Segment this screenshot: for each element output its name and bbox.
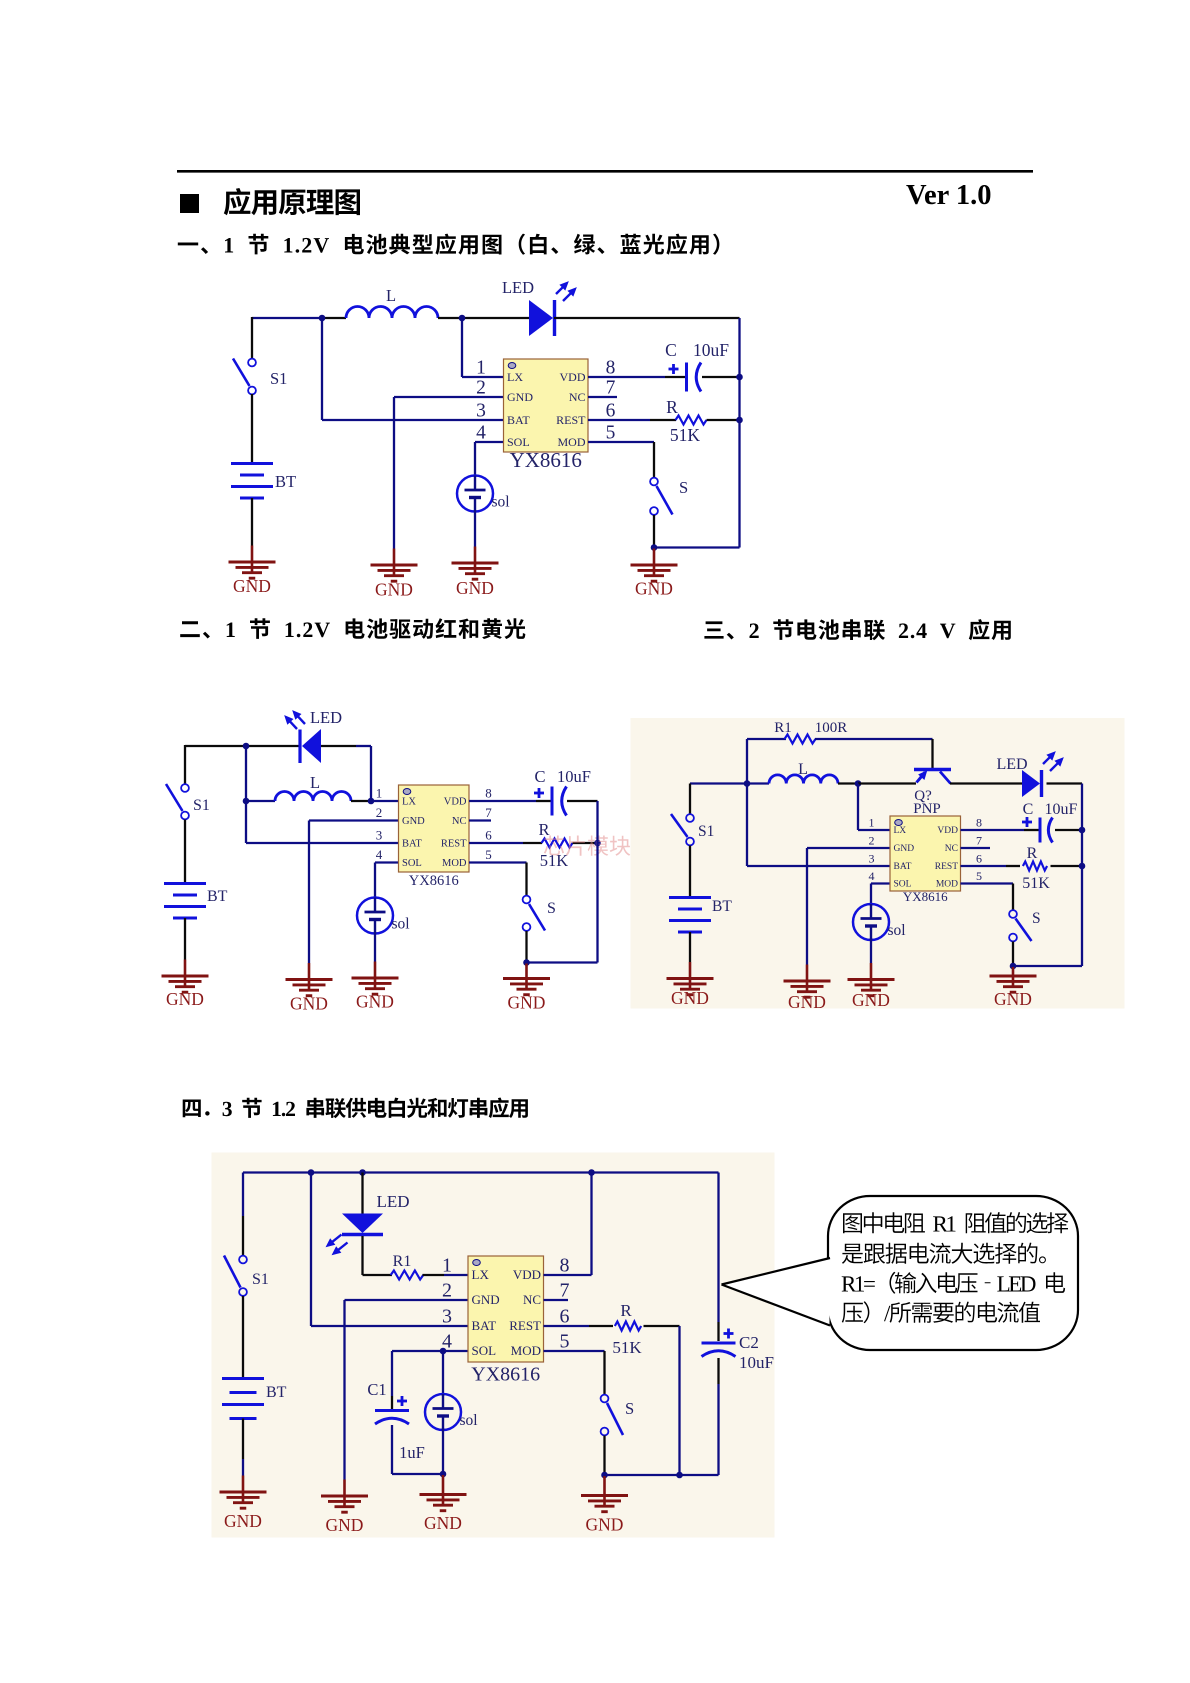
- svg-text:LX: LX: [894, 826, 907, 836]
- switch S1: [166, 784, 189, 819]
- svg-text:10uF: 10uF: [739, 1353, 774, 1372]
- wire S1 top: [184, 745, 186, 784]
- ground: [581, 1476, 628, 1535]
- wire SOL vertical: [870, 884, 872, 907]
- ground: [503, 964, 550, 1013]
- op-amp / IC U4 YX8616: [442, 1255, 570, 1386]
- wire pin6 REST: [588, 419, 650, 421]
- solar cell sol: [357, 898, 410, 934]
- svg-text:5: 5: [976, 869, 982, 883]
- wire inductor to node: [438, 317, 462, 319]
- LED D3: [1022, 752, 1063, 797]
- wire LED to corner: [321, 745, 356, 747]
- wire battery to ground: [689, 932, 691, 962]
- svg-text:VDD: VDD: [444, 796, 467, 807]
- svg-text:S1: S1: [252, 1271, 269, 1288]
- wire bottom right: [654, 546, 740, 548]
- node junction: [440, 1471, 447, 1478]
- svg-text:BT: BT: [207, 888, 228, 905]
- wire pin2 GND: [309, 819, 399, 821]
- wire pin2 vertical: [343, 1300, 345, 1480]
- node junction cap-rail: [736, 374, 743, 381]
- svg-text:sol: sol: [492, 494, 510, 511]
- wire stub: [242, 1459, 244, 1476]
- wire pin4 SOL: [375, 861, 399, 863]
- svg-text:YX8616: YX8616: [409, 873, 459, 889]
- wire R1 to chip: [423, 1274, 445, 1276]
- wire MOD vertical: [1012, 884, 1014, 911]
- node junction cap-rail: [1079, 827, 1086, 834]
- wire node to LED: [462, 317, 530, 319]
- wire pin2 vertical to ground: [393, 397, 395, 549]
- svg-text:REST: REST: [509, 1318, 541, 1333]
- wire resistor to rail: [573, 842, 598, 844]
- wire pin1 LX: [371, 800, 399, 802]
- svg-text:SOL: SOL: [507, 435, 530, 449]
- svg-text:GND: GND: [894, 844, 915, 854]
- resistor R1 100R: [785, 735, 816, 744]
- watermark: [544, 836, 651, 856]
- wire S1 to battery: [184, 820, 186, 883]
- wire battery to ground: [242, 1419, 244, 1460]
- LED D2: [285, 711, 321, 763]
- wire LX vertical: [461, 318, 463, 377]
- background panel: [212, 1153, 775, 1538]
- wire pin1 LX: [462, 376, 504, 378]
- svg-text:2: 2: [376, 805, 383, 820]
- wire pin2 vertical to ground: [308, 821, 310, 964]
- svg-text:REST: REST: [935, 862, 958, 872]
- node junction bottom: [523, 959, 530, 966]
- svg-text:GND: GND: [166, 989, 204, 1009]
- wire cap to rail: [567, 800, 598, 802]
- svg-text:R: R: [538, 820, 549, 839]
- callout tail: [722, 1259, 830, 1325]
- svg-text:GND: GND: [852, 990, 890, 1010]
- svg-text:GND: GND: [671, 988, 709, 1008]
- svg-text:7: 7: [606, 378, 616, 399]
- right rail: [738, 318, 740, 548]
- svg-text:GND: GND: [788, 992, 826, 1012]
- svg-text:10uF: 10uF: [557, 767, 591, 786]
- wire pin2 GND: [394, 396, 504, 398]
- svg-text:VDD: VDD: [937, 826, 958, 836]
- svg-text:S: S: [679, 478, 688, 497]
- right rail: [1081, 784, 1083, 967]
- capacitor C 10uF: [534, 787, 567, 816]
- svg-text:MOD: MOD: [511, 1343, 541, 1358]
- ground: [990, 967, 1037, 1009]
- node junction: [676, 1472, 683, 1479]
- ground: [229, 546, 276, 597]
- wire resistor right: [644, 1325, 680, 1327]
- wire top rail: [185, 745, 301, 747]
- svg-text:sol: sol: [392, 916, 410, 933]
- wire pin8 VDD: [961, 829, 1025, 831]
- wire main left: [690, 782, 769, 784]
- wire pin3 BAT vertical: [321, 318, 323, 420]
- wire corner down: [370, 746, 372, 801]
- wire pin1 LX: [858, 829, 891, 831]
- battery BT: [231, 464, 273, 499]
- node junction bottom: [1010, 963, 1017, 970]
- wire pin6 to resistor: [650, 419, 676, 421]
- wire MOD vertical: [603, 1351, 605, 1395]
- wire VDD vertical: [590, 1173, 592, 1276]
- svg-text:R1: R1: [774, 720, 792, 736]
- wire S1 to battery: [242, 1296, 244, 1377]
- svg-text:2: 2: [869, 834, 875, 848]
- svg-text:6: 6: [485, 828, 492, 843]
- transistor Q? PNP: [914, 770, 951, 784]
- svg-text:NC: NC: [945, 844, 958, 854]
- svg-text:SOL: SOL: [472, 1343, 497, 1358]
- svg-text:BAT: BAT: [472, 1318, 497, 1333]
- section 4 title: [183, 1098, 528, 1119]
- svg-text:S: S: [1032, 910, 1041, 927]
- svg-text:GND: GND: [375, 580, 413, 600]
- op-amp / IC U2 YX8616: [376, 785, 493, 889]
- ground: [162, 960, 209, 1010]
- svg-text:GND: GND: [472, 1292, 500, 1307]
- svg-text:S1: S1: [193, 797, 210, 814]
- svg-text:10uF: 10uF: [693, 340, 729, 360]
- node junction bottom: [651, 544, 658, 551]
- op-amp / IC U3 YX8616: [869, 816, 983, 905]
- svg-text:LED: LED: [996, 756, 1027, 773]
- capacitor C 10uF: [669, 363, 702, 392]
- section 2 title: [180, 618, 525, 639]
- battery BT: [222, 1379, 264, 1419]
- svg-text:GND: GND: [456, 578, 494, 598]
- resistor R 51K: [676, 416, 707, 425]
- wire pin7 NC stub: [961, 847, 991, 849]
- resistor R1: [391, 1271, 424, 1280]
- svg-text:C: C: [534, 767, 545, 786]
- battery BT: [669, 898, 711, 933]
- node junction bottom: [601, 1472, 608, 1479]
- callout text: [843, 1212, 1068, 1233]
- svg-text:GND: GND: [635, 579, 673, 599]
- svg-text:6: 6: [976, 852, 982, 866]
- wire left rail down to S1: [251, 317, 253, 359]
- svg-text:REST: REST: [441, 838, 467, 849]
- wire switch to bottom node: [525, 931, 527, 963]
- switch S1: [671, 814, 694, 845]
- wire pin5 MOD: [469, 861, 527, 863]
- wire SOL vertical: [474, 442, 476, 477]
- wire MOD vertical to switch: [653, 442, 655, 478]
- ground: [784, 965, 831, 1013]
- svg-text:GND: GND: [424, 1513, 462, 1533]
- svg-text:S: S: [625, 1399, 634, 1418]
- wire pin7 NC stub: [469, 819, 491, 821]
- wire inductor to node: [351, 800, 371, 802]
- switch S: [650, 478, 672, 515]
- svg-text:1: 1: [869, 816, 875, 830]
- switch S: [523, 896, 545, 931]
- wire switch to bottom: [603, 1436, 605, 1476]
- LED D1: [529, 282, 576, 336]
- wire sol to ground: [870, 938, 872, 963]
- ground: [352, 962, 399, 1012]
- svg-text:8: 8: [560, 1255, 570, 1277]
- ground: [220, 1476, 267, 1532]
- wire C1 vertical bottom: [391, 1425, 393, 1474]
- svg-text:5: 5: [606, 423, 616, 444]
- svg-text:L: L: [798, 761, 808, 778]
- op-amp / IC U1 YX8616: [476, 358, 616, 473]
- wire pin1 vertical: [857, 784, 859, 831]
- wire S1 to battery: [689, 846, 691, 897]
- svg-text:BT: BT: [266, 1384, 287, 1401]
- svg-text:4: 4: [476, 423, 486, 444]
- svg-text:BT: BT: [275, 472, 296, 491]
- svg-text:3: 3: [442, 1306, 452, 1328]
- wire pin4 SOL: [392, 1350, 469, 1352]
- wire pin2 vertical: [806, 848, 808, 965]
- wire C1 vertical top: [391, 1351, 393, 1396]
- svg-text:8: 8: [606, 358, 616, 379]
- wire pin3 BAT: [747, 865, 891, 867]
- svg-text:3: 3: [869, 852, 875, 866]
- svg-text:C: C: [665, 340, 677, 360]
- right rail bottom segment: [717, 1358, 719, 1384]
- wire pin2 GND: [345, 1299, 469, 1301]
- wire corner to R1: [363, 1274, 393, 1276]
- wire battery to ground: [251, 498, 253, 546]
- svg-text:C: C: [1023, 801, 1034, 818]
- svg-text:VDD: VDD: [560, 370, 586, 384]
- ground: [420, 1475, 467, 1533]
- wire bottom rail: [605, 1474, 719, 1476]
- wire top rail left: [252, 317, 322, 319]
- svg-text:8: 8: [485, 786, 492, 801]
- svg-text:MOD: MOD: [442, 858, 467, 869]
- wire pin8 VDD: [544, 1274, 592, 1276]
- wire top rail: [243, 1171, 719, 1173]
- svg-text:YX8616: YX8616: [510, 448, 582, 472]
- svg-text:51K: 51K: [612, 1338, 642, 1357]
- svg-text:GND: GND: [290, 994, 328, 1014]
- svg-text:LED: LED: [502, 278, 534, 297]
- wire pin4 SOL: [475, 441, 504, 443]
- wire sol to node: [442, 1428, 444, 1474]
- svg-text:MOD: MOD: [557, 435, 585, 449]
- wire pin6 to resistor: [523, 842, 542, 844]
- svg-text:S: S: [547, 900, 556, 917]
- switch S1: [233, 359, 256, 395]
- node junction top-left: [319, 315, 326, 322]
- wire LED to corner: [1047, 782, 1083, 784]
- svg-text:NC: NC: [452, 816, 467, 827]
- svg-text:7: 7: [976, 834, 982, 848]
- svg-text:sol: sol: [888, 922, 906, 939]
- node junction inductor-left: [243, 798, 250, 805]
- section 1 title: [178, 234, 720, 255]
- svg-text:GND: GND: [233, 576, 271, 596]
- svg-text:BAT: BAT: [894, 862, 912, 872]
- wire MOD vertical: [525, 863, 527, 897]
- wire pin5 MOD: [961, 882, 1014, 884]
- wire resistor to rail: [707, 419, 740, 421]
- wire pin8 VDD: [469, 800, 536, 802]
- capacitor C1 1uF: [375, 1396, 409, 1424]
- svg-text:PNP: PNP: [913, 801, 941, 817]
- ground: [321, 1480, 368, 1536]
- solar cell sol: [457, 476, 510, 512]
- svg-text:1: 1: [442, 1255, 452, 1277]
- wire pin8 VDD: [588, 376, 665, 378]
- wire switch to bottom node: [653, 515, 655, 548]
- svg-text:S1: S1: [698, 823, 714, 840]
- switch S1 wire: [689, 784, 691, 815]
- node junction LX: [368, 798, 375, 805]
- ground: [667, 962, 714, 1008]
- background panel: [631, 718, 1125, 1009]
- wire LED to right rail: [554, 317, 740, 319]
- svg-text:GND: GND: [508, 993, 546, 1013]
- wire resistor to rail: [1051, 865, 1083, 867]
- wire collector to LED: [950, 782, 1023, 784]
- svg-text:Ver 1.0: Ver 1.0: [906, 180, 992, 211]
- wire sol to ground: [474, 510, 476, 547]
- capacitor C 10uF: [1022, 817, 1053, 843]
- solar cell sol: [425, 1394, 478, 1430]
- svg-text:REST: REST: [556, 413, 586, 427]
- svg-text:10uF: 10uF: [1045, 801, 1078, 818]
- wire REST vertical: [678, 1326, 680, 1475]
- wire to S1: [242, 1216, 244, 1256]
- svg-text:YX8616: YX8616: [903, 889, 948, 904]
- wire pin6 REST: [544, 1325, 590, 1327]
- resistor R 51K: [1023, 862, 1047, 871]
- wire pin1 LX: [444, 1274, 469, 1276]
- wire cap to right rail: [702, 376, 740, 378]
- wire R1 to base corner: [815, 738, 933, 740]
- svg-text:7: 7: [485, 805, 492, 820]
- svg-text:7: 7: [560, 1280, 570, 1302]
- wire bottom: [1013, 965, 1082, 967]
- svg-text:1: 1: [376, 786, 383, 801]
- node junction sol: [440, 1348, 447, 1355]
- switch S: [601, 1395, 623, 1436]
- right rail top segment: [717, 1173, 719, 1323]
- svg-text:R: R: [666, 397, 678, 417]
- svg-text:R1: R1: [393, 1253, 412, 1270]
- callout bubble: [828, 1196, 1078, 1350]
- svg-text:5: 5: [485, 847, 492, 862]
- svg-text:2: 2: [476, 378, 486, 399]
- svg-text:YX8616: YX8616: [471, 1364, 540, 1386]
- svg-text:LX: LX: [507, 370, 523, 384]
- svg-text:5: 5: [560, 1331, 570, 1353]
- wire pin3 BAT: [322, 419, 504, 421]
- svg-text:LX: LX: [472, 1267, 490, 1282]
- black square bullet: [180, 194, 199, 213]
- svg-text:VDD: VDD: [513, 1267, 541, 1282]
- wire LED to corner: [361, 1236, 363, 1275]
- node junction LX: [459, 315, 466, 322]
- wire pin7 NC stub: [544, 1299, 569, 1301]
- inductor L: [346, 307, 438, 319]
- ground: [848, 963, 895, 1010]
- wire pin7 NC stub: [588, 396, 617, 398]
- svg-text:R: R: [1027, 845, 1038, 862]
- wire pin6 REST: [961, 865, 1007, 867]
- wire battery to ground: [184, 918, 186, 960]
- svg-text:100R: 100R: [815, 720, 848, 736]
- wire pin8 to cap: [665, 376, 686, 378]
- node junctions top: [308, 1169, 315, 1176]
- svg-text:4: 4: [442, 1331, 452, 1353]
- svg-text:GND: GND: [586, 1515, 624, 1535]
- svg-text:51K: 51K: [670, 425, 701, 445]
- wire SOL vertical: [374, 863, 376, 900]
- svg-text:BT: BT: [712, 898, 732, 915]
- svg-text:6: 6: [606, 401, 616, 422]
- wire pin6 REST: [469, 842, 523, 844]
- wire base vertical: [931, 739, 933, 768]
- svg-text:GND: GND: [326, 1515, 364, 1535]
- svg-text:sol: sol: [460, 1412, 478, 1429]
- svg-text:4: 4: [376, 847, 383, 862]
- svg-text:1: 1: [476, 358, 486, 379]
- wire R1 top: [747, 738, 786, 740]
- wire cap to rail: [1055, 829, 1082, 831]
- svg-text:R: R: [620, 1301, 632, 1320]
- wire left vertical: [245, 746, 247, 843]
- svg-text:NC: NC: [523, 1292, 541, 1307]
- wire BAT vertical: [310, 1173, 312, 1327]
- wire R1 top left vertical: [746, 739, 748, 866]
- resistor R 51K: [615, 1322, 641, 1331]
- node junction res-rail: [1079, 863, 1086, 870]
- switch S: [1009, 910, 1031, 941]
- svg-text:GND: GND: [402, 816, 425, 827]
- ground: [286, 963, 333, 1014]
- doc title 应用原理图: [224, 188, 360, 215]
- wire pin3 BAT: [311, 1325, 469, 1327]
- svg-text:3: 3: [476, 401, 486, 422]
- node junction res-rail: [736, 417, 743, 424]
- node junction top: [243, 743, 250, 750]
- horizontal rule: [177, 170, 1033, 173]
- inductor L: [275, 792, 351, 802]
- wire inductor to node: [838, 782, 858, 784]
- svg-text:2: 2: [442, 1280, 452, 1302]
- svg-text:S1: S1: [270, 369, 287, 388]
- ground: [371, 549, 418, 600]
- svg-text:LED: LED: [376, 1192, 409, 1211]
- svg-text:3: 3: [376, 828, 383, 843]
- wire pin8 to cap: [536, 800, 552, 802]
- svg-text:1uF: 1uF: [399, 1443, 425, 1462]
- capacitor C2 10uF: [702, 1329, 736, 1357]
- svg-text:L: L: [386, 286, 396, 305]
- svg-text:C1: C1: [367, 1380, 386, 1399]
- svg-text:4: 4: [869, 869, 875, 883]
- wire sol to ground: [374, 932, 376, 962]
- svg-text:BAT: BAT: [402, 838, 422, 849]
- svg-text:8: 8: [976, 816, 982, 830]
- svg-text:51K: 51K: [1022, 875, 1050, 892]
- node junction: [744, 780, 751, 787]
- ground: [631, 549, 678, 599]
- right rail: [596, 801, 598, 963]
- node junction LX: [855, 780, 862, 787]
- inductor L: [769, 775, 838, 784]
